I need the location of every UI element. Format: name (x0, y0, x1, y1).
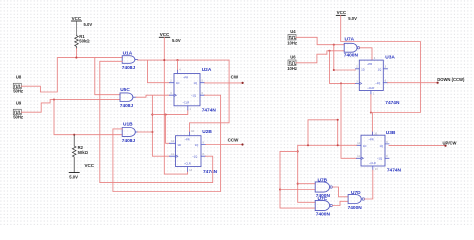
svg-text:7474N: 7474N (385, 100, 400, 106)
svg-text:~PR: ~PR (367, 62, 372, 66)
wire R1 bottom to junction (76, 49, 78, 58)
svg-text:U9: U9 (16, 101, 22, 106)
VCC symbol VCC2 (middle, 5.0V) (159, 32, 181, 43)
clock source U9 50Hz (13, 101, 23, 120)
junction U6 net (328, 50, 330, 52)
D flip-flop U2B 7474N (170, 129, 218, 175)
svg-text:5.0V: 5.0V (348, 16, 357, 21)
svg-text:U7D: U7D (351, 190, 361, 196)
wire U9 output staircase to U5C input 2 (21, 100, 120, 113)
D flip-flop U3B 7474N (357, 130, 402, 173)
node CCW endpoint (241, 143, 243, 145)
wire tap to U7B input 1 (298, 183, 316, 185)
wire CLK chain down to U3B CLK (341, 83, 357, 158)
svg-text:7474N: 7474N (387, 167, 402, 173)
svg-text:50Hz: 50Hz (13, 89, 23, 94)
NAND gate U7C 7400N (315, 196, 332, 218)
wire U6 to U7A input 2 (296, 51, 344, 63)
wire net A branch down to U5C input 1 (95, 58, 120, 95)
svg-text:1Q: 1Q (378, 67, 381, 71)
junction U3A CLR (370, 111, 372, 113)
svg-text:7408J: 7408J (120, 103, 134, 109)
resistor R2 50kOhm (72, 135, 88, 173)
node DOWN endpoint (437, 82, 439, 84)
svg-text:U3B: U3B (386, 130, 396, 136)
junction net B split (53, 99, 55, 101)
wire U1A output to U2A D and PRE rail (138, 60, 229, 83)
svg-text:U2B: U2B (202, 129, 212, 135)
svg-text:1Q: 1Q (195, 143, 198, 147)
wire PRE rail loop down to U2B PRE (190, 60, 230, 132)
svg-text:50kΩ: 50kΩ (79, 39, 90, 44)
VCC symbol VCC3 (top right, 5.0V) (336, 10, 357, 21)
svg-text:~CLR: ~CLR (367, 86, 374, 90)
svg-text:UP/CW: UP/CW (443, 140, 457, 145)
junction U4 net (333, 44, 335, 46)
wire U2B Q to CCW (206, 144, 243, 146)
NAND gate U7D 7400N (348, 190, 365, 211)
junction U2B D drop (165, 114, 167, 116)
wire U4 to U7A input 1 (296, 37, 344, 44)
svg-text:U8: U8 (16, 75, 22, 80)
wire drop to U2B D (166, 115, 170, 144)
junction U7B input 2 tap (279, 188, 281, 190)
svg-text:10Hz: 10Hz (287, 40, 297, 45)
svg-text:10Hz: 10Hz (287, 66, 297, 71)
svg-text:5.0V: 5.0V (172, 38, 181, 43)
junction R2 top (73, 134, 75, 136)
wire tap to U7B input 2 (280, 189, 315, 191)
svg-text:U1B: U1B (123, 122, 133, 128)
svg-text:U2A: U2A (202, 67, 212, 73)
wire U8 output to net A (up staircase to y=57.6) (21, 58, 122, 92)
svg-text:U3A: U3A (385, 55, 395, 61)
junction D-line / riser (307, 144, 309, 146)
wire U7B output to U7D input 1 (333, 187, 349, 197)
svg-text:7474N: 7474N (202, 107, 217, 113)
D flip-flop U2A 7474N (170, 67, 217, 114)
junction VCC2 / PRE rail (163, 59, 165, 61)
svg-text:~1Q: ~1Q (375, 81, 380, 85)
junction R1/net A (75, 57, 77, 59)
svg-text:U6: U6 (290, 54, 296, 59)
wire U3A ~Q to DOWN (CCW) (388, 82, 438, 84)
svg-text:U5C: U5C (120, 87, 130, 93)
svg-text:50Hz: 50Hz (13, 115, 23, 120)
wire U7C output to U7D input 2 (333, 201, 349, 205)
svg-text:U1A: U1A (123, 51, 133, 57)
wire second feeder to U7C input 2 (280, 151, 315, 208)
junction riser bottom on D line (337, 144, 339, 146)
junction riser top (337, 119, 339, 121)
svg-text:7400N: 7400N (344, 53, 359, 59)
svg-text:~CLR: ~CLR (369, 161, 376, 165)
wire U6 net down to U3A CLK (330, 51, 356, 84)
svg-text:U4: U4 (290, 29, 296, 34)
junction feeder top (297, 150, 299, 152)
svg-text:1Q: 1Q (380, 144, 383, 148)
svg-text:1Q: 1Q (194, 81, 197, 85)
svg-text:~CLR: ~CLR (183, 101, 190, 105)
svg-text:1D: 1D (176, 81, 179, 85)
svg-text:CW: CW (231, 74, 239, 79)
clock source U8 50Hz (13, 75, 23, 94)
wire VCC3 loop to U3A CLR / U3B PRE rail (341, 15, 421, 135)
svg-text:VCC: VCC (85, 163, 95, 168)
svg-text:50kΩ: 50kΩ (78, 150, 89, 155)
wire net B down to U1B input 2 line (54, 100, 122, 135)
wire U2A ~Q feedback loop to U1B input 1 (113, 95, 221, 191)
AND gate U1A 7408J (122, 51, 138, 72)
svg-text:U7B: U7B (318, 177, 328, 183)
svg-text:~1Q: ~1Q (192, 155, 197, 159)
svg-text:CCW: CCW (228, 138, 239, 143)
wire U1B output to branch vertical (138, 131, 153, 133)
svg-text:VCC: VCC (72, 16, 82, 21)
clock source U6 10Hz (287, 54, 297, 71)
junction CLR rail (151, 114, 153, 116)
wire U3B D line with riser (298, 120, 357, 203)
junction CLK chain (340, 82, 342, 84)
wire VCC2 down and along to U2B CLR (164, 37, 187, 174)
VCC symbol VCC1 (top left, 5.0V) (72, 16, 93, 36)
junction U7B input 1 tap (297, 183, 299, 185)
wire U5C output to U2A CLK and down-branch (136, 95, 170, 156)
svg-text:1D: 1D (178, 143, 181, 147)
svg-text:~PR: ~PR (369, 137, 374, 141)
svg-text:7408J: 7408J (122, 65, 136, 71)
node UP/CW endpoint (444, 145, 446, 147)
clock source U4 10Hz (287, 29, 297, 45)
svg-text:U7A: U7A (345, 36, 355, 42)
svg-text:~CLR: ~CLR (184, 161, 191, 165)
svg-text:5.0V: 5.0V (69, 175, 78, 180)
svg-text:~1Q: ~1Q (377, 157, 382, 161)
svg-text:VCC: VCC (337, 10, 347, 15)
junction U3A D (333, 69, 335, 71)
node CW endpoint (242, 82, 244, 84)
AND gate U5C 7408J (120, 87, 136, 109)
svg-text:~PR: ~PR (183, 76, 188, 80)
wire U2B ~Q feedback loop to U1A input 2 (100, 61, 213, 182)
wire U7D output up to U3B CLR (365, 170, 373, 199)
svg-text:VCC: VCC (160, 32, 170, 37)
wire U3B Q to UP/CW (389, 145, 446, 147)
wire CLR rail to U2A CLR pin (152, 110, 187, 115)
AND gate U1B 7408J (122, 122, 138, 144)
junction U1B out (151, 131, 153, 133)
svg-text:5.0V: 5.0V (84, 22, 93, 27)
D flip-flop U3A 7474N (356, 55, 400, 106)
wire U2A Q to CW (205, 82, 243, 84)
svg-text:7408J: 7408J (122, 138, 136, 144)
NAND gate U7A 7400N (344, 36, 360, 58)
resistor R1 50kOhm (75, 34, 91, 49)
svg-text:1D: 1D (363, 144, 366, 148)
wire U4 net down to U3A D (334, 45, 356, 70)
svg-text:1D: 1D (361, 67, 364, 71)
wire PRE rail drop to U2A PRE pin (177, 60, 179, 70)
wire U7A output to U3A PRE (360, 48, 372, 60)
wire U3A CLR pin to rail (370, 94, 372, 113)
svg-text:7400N: 7400N (316, 212, 331, 218)
junction U2A PRE drop (176, 59, 178, 61)
NAND gate U7B 7400N (315, 177, 332, 199)
svg-text:~1Q: ~1Q (191, 94, 196, 98)
svg-text:7474N: 7474N (203, 169, 218, 175)
VCC symbol at R2 bottom (5.0V, downward) (69, 163, 95, 179)
svg-text:7400N: 7400N (348, 205, 363, 211)
svg-text:~PR: ~PR (185, 138, 190, 142)
svg-text:U7C: U7C (318, 196, 328, 202)
svg-text:DOWN (CCW): DOWN (CCW) (437, 77, 465, 82)
